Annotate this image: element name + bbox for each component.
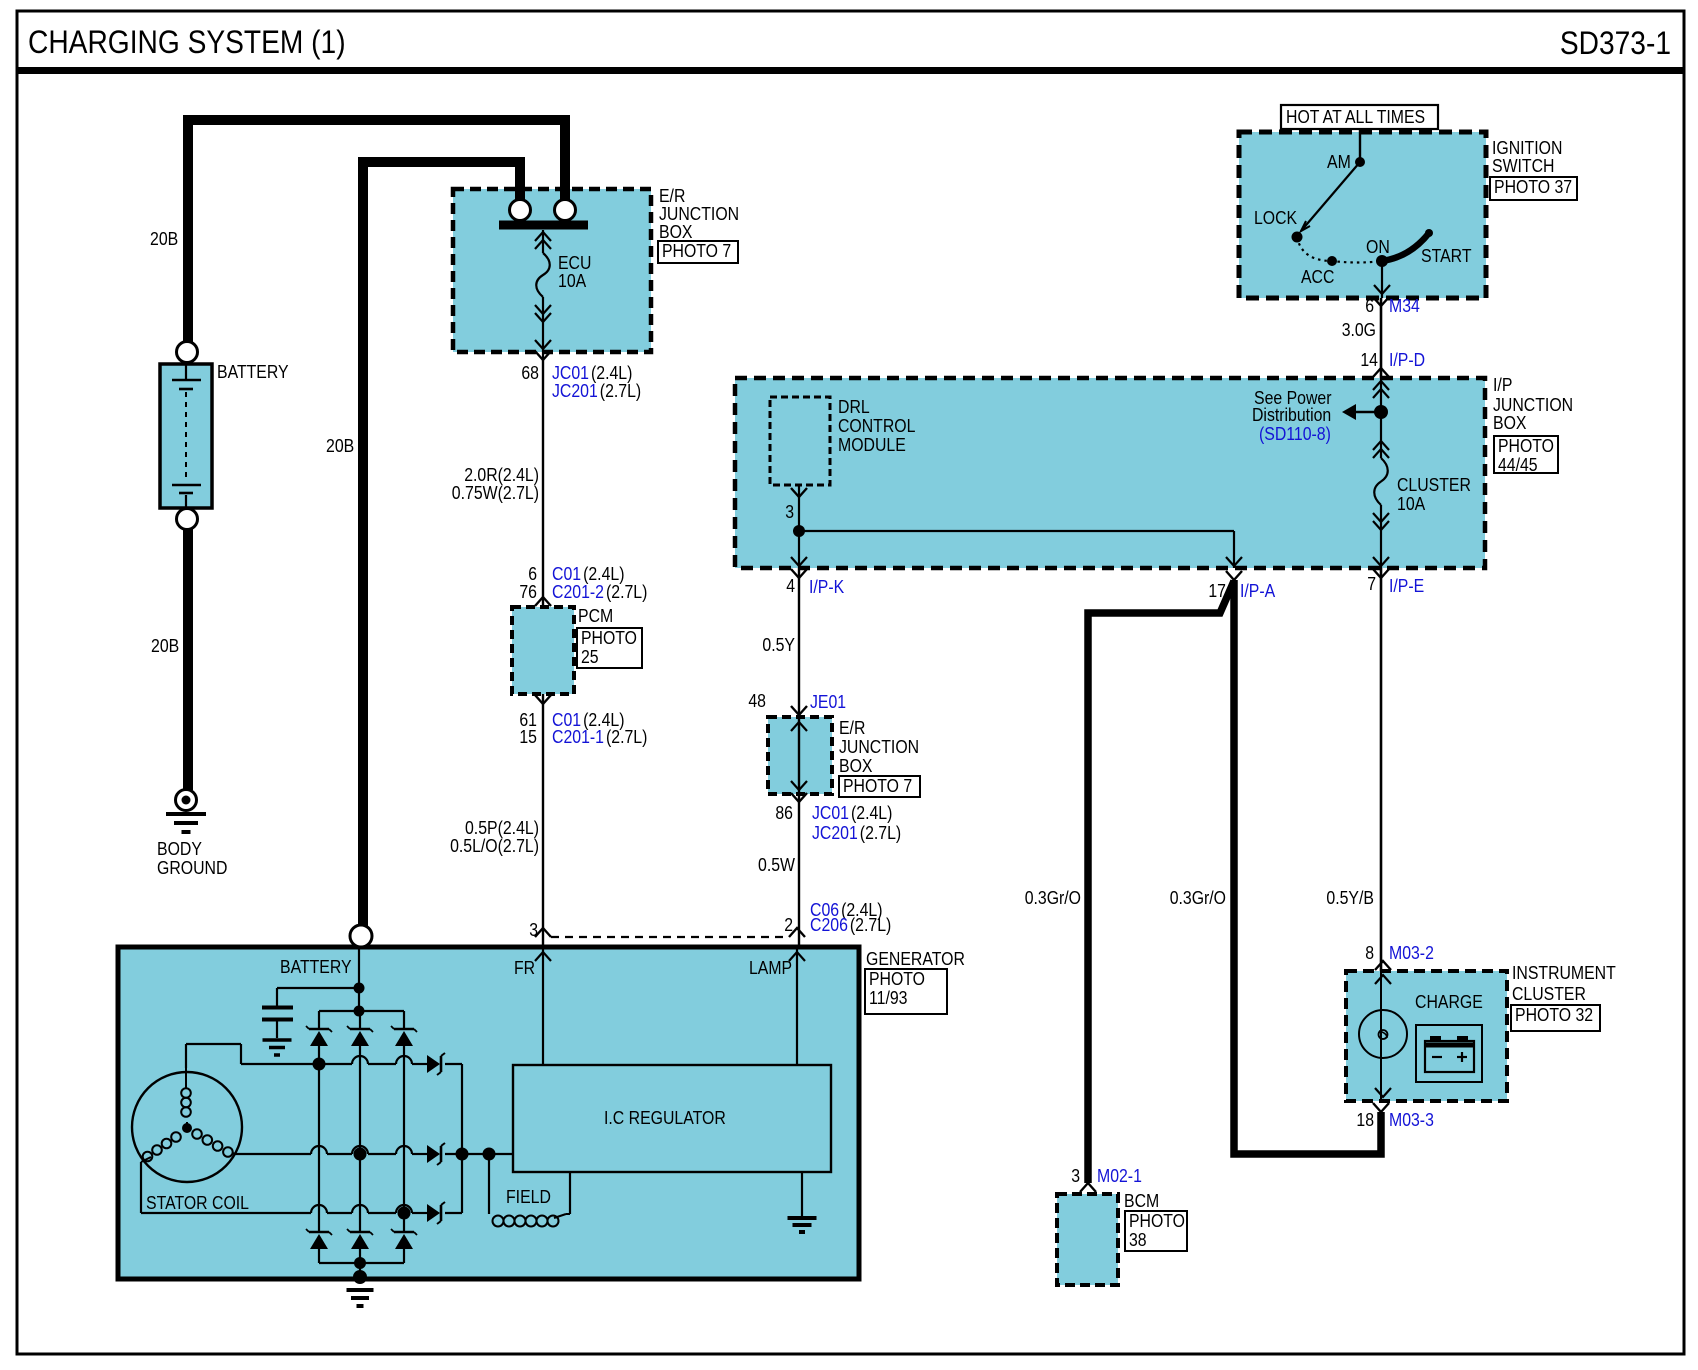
svg-text:START: START: [1421, 246, 1472, 266]
svg-text:3: 3: [785, 502, 794, 522]
svg-text:JUNCTION: JUNCTION: [839, 737, 919, 757]
svg-text:(2.4L): (2.4L): [851, 803, 892, 823]
svg-text:BOX: BOX: [1493, 413, 1527, 433]
svg-text:10A: 10A: [1397, 494, 1425, 514]
svg-text:PHOTO 37: PHOTO 37: [1494, 177, 1572, 197]
svg-text:JC201: JC201: [812, 823, 858, 843]
svg-text:25: 25: [581, 647, 599, 667]
svg-text:(2.7L): (2.7L): [606, 582, 647, 602]
svg-text:C201-1: C201-1: [552, 727, 604, 747]
svg-text:(2.4L): (2.4L): [591, 363, 632, 383]
svg-text:68: 68: [521, 363, 539, 383]
svg-text:BATTERY: BATTERY: [280, 957, 352, 977]
svg-text:17: 17: [1208, 581, 1226, 601]
svg-text:MODULE: MODULE: [838, 435, 906, 455]
svg-text:JUNCTION: JUNCTION: [659, 204, 739, 224]
svg-text:38: 38: [1129, 1230, 1147, 1250]
svg-text:AM: AM: [1327, 152, 1351, 172]
svg-text:0.75W(2.7L): 0.75W(2.7L): [452, 483, 539, 503]
svg-text:(2.7L): (2.7L): [606, 727, 647, 747]
svg-text:I/P-D: I/P-D: [1389, 350, 1425, 370]
svg-text:GROUND: GROUND: [157, 858, 227, 878]
svg-text:3.0G: 3.0G: [1342, 320, 1376, 340]
svg-text:10A: 10A: [558, 271, 586, 291]
svg-text:JC01: JC01: [552, 363, 589, 383]
svg-text:BCM: BCM: [1124, 1191, 1159, 1211]
svg-text:PHOTO: PHOTO: [1498, 436, 1554, 456]
svg-text:JC201: JC201: [552, 381, 598, 401]
svg-text:M34: M34: [1389, 296, 1420, 316]
svg-text:86: 86: [775, 803, 793, 823]
svg-text:PCM: PCM: [578, 606, 613, 626]
svg-text:0.3Gr/O: 0.3Gr/O: [1025, 888, 1081, 908]
svg-text:6: 6: [528, 564, 537, 584]
svg-text:0.5Y: 0.5Y: [762, 635, 795, 655]
svg-text:FR: FR: [514, 958, 535, 978]
svg-text:CLUSTER: CLUSTER: [1397, 475, 1471, 495]
svg-text:0.5Y/B: 0.5Y/B: [1326, 888, 1374, 908]
svg-text:JUNCTION: JUNCTION: [1493, 395, 1573, 415]
svg-text:LAMP: LAMP: [749, 958, 792, 978]
svg-text:(2.7L): (2.7L): [860, 823, 901, 843]
svg-text:GENERATOR: GENERATOR: [866, 949, 965, 969]
svg-text:PHOTO: PHOTO: [869, 969, 925, 989]
svg-text:I.C REGULATOR: I.C REGULATOR: [604, 1108, 726, 1128]
svg-text:7: 7: [1367, 574, 1376, 594]
svg-text:DRL: DRL: [838, 397, 870, 417]
svg-text:0.5W: 0.5W: [758, 855, 795, 875]
svg-text:0.5L/O(2.7L): 0.5L/O(2.7L): [450, 836, 539, 856]
svg-text:C206: C206: [810, 915, 848, 935]
svg-text:20B: 20B: [150, 229, 178, 249]
svg-text:BOX: BOX: [659, 222, 693, 242]
svg-text:18: 18: [1356, 1110, 1374, 1130]
svg-text:C201-2: C201-2: [552, 582, 604, 602]
svg-text:SD373-1: SD373-1: [1560, 25, 1671, 61]
svg-text:E/R: E/R: [659, 186, 685, 206]
svg-text:6: 6: [1365, 296, 1374, 316]
svg-text:15: 15: [519, 727, 537, 747]
svg-text:I/P-E: I/P-E: [1389, 576, 1424, 596]
svg-text:BODY: BODY: [157, 839, 202, 859]
svg-text:C01: C01: [552, 564, 581, 584]
svg-text:STATOR COIL: STATOR COIL: [146, 1193, 249, 1213]
svg-text:JC01: JC01: [812, 803, 849, 823]
svg-text:0.5P(2.4L): 0.5P(2.4L): [465, 818, 539, 838]
svg-text:M02-1: M02-1: [1097, 1166, 1142, 1186]
svg-text:11/93: 11/93: [869, 988, 908, 1008]
svg-text:E/R: E/R: [839, 718, 865, 738]
svg-text:FIELD: FIELD: [506, 1187, 551, 1207]
svg-text:BATTERY: BATTERY: [217, 362, 289, 382]
svg-text:I/P: I/P: [1493, 375, 1512, 395]
svg-text:ECU: ECU: [558, 253, 591, 273]
svg-text:I/P-A: I/P-A: [1240, 581, 1275, 601]
svg-text:2.0R(2.4L): 2.0R(2.4L): [464, 465, 539, 485]
svg-text:PHOTO: PHOTO: [1129, 1211, 1185, 1231]
svg-text:0.3Gr/O: 0.3Gr/O: [1170, 888, 1226, 908]
svg-text:(SD110-8): (SD110-8): [1259, 424, 1331, 444]
svg-text:PHOTO 7: PHOTO 7: [843, 776, 912, 796]
svg-text:PHOTO 7: PHOTO 7: [662, 241, 731, 261]
svg-text:IGNITION: IGNITION: [1492, 138, 1562, 158]
svg-text:(2.7L): (2.7L): [600, 381, 641, 401]
svg-text:CHARGE: CHARGE: [1415, 992, 1483, 1012]
svg-text:4: 4: [786, 576, 795, 596]
svg-text:Distribution: Distribution: [1252, 405, 1331, 425]
svg-text:ACC: ACC: [1301, 267, 1334, 287]
svg-text:CHARGING SYSTEM (1): CHARGING SYSTEM (1): [28, 24, 346, 60]
svg-text:14: 14: [1360, 350, 1378, 370]
svg-text:M03-3: M03-3: [1389, 1110, 1434, 1130]
svg-text:M03-2: M03-2: [1389, 943, 1434, 963]
svg-text:2: 2: [784, 915, 793, 935]
svg-text:(2.4L): (2.4L): [583, 564, 624, 584]
svg-text:HOT AT ALL TIMES: HOT AT ALL TIMES: [1286, 107, 1425, 127]
svg-text:CONTROL: CONTROL: [838, 416, 915, 436]
svg-text:3: 3: [1071, 1166, 1080, 1186]
svg-text:BOX: BOX: [839, 756, 873, 776]
svg-text:SWITCH: SWITCH: [1492, 156, 1555, 176]
svg-text:3: 3: [529, 920, 538, 940]
svg-text:ON: ON: [1366, 237, 1390, 257]
svg-text:44/45: 44/45: [1498, 455, 1538, 475]
svg-text:20B: 20B: [151, 636, 179, 656]
svg-text:LOCK: LOCK: [1254, 208, 1297, 228]
svg-text:INSTRUMENT: INSTRUMENT: [1512, 963, 1616, 983]
svg-text:20B: 20B: [326, 436, 354, 456]
svg-text:(2.7L): (2.7L): [850, 915, 891, 935]
svg-text:PHOTO 32: PHOTO 32: [1515, 1005, 1593, 1025]
svg-text:JE01: JE01: [810, 692, 846, 712]
svg-text:CLUSTER: CLUSTER: [1512, 984, 1586, 1004]
svg-text:48: 48: [748, 691, 766, 711]
svg-text:76: 76: [519, 582, 537, 602]
svg-text:8: 8: [1365, 943, 1374, 963]
svg-text:PHOTO: PHOTO: [581, 628, 637, 648]
svg-text:I/P-K: I/P-K: [809, 577, 844, 597]
